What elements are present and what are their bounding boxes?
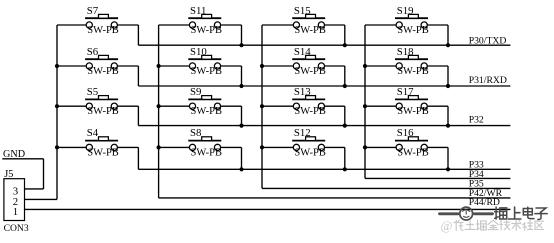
svg-text:SW-PB: SW-PB — [191, 25, 223, 36]
svg-text:S10: S10 — [190, 46, 207, 58]
svg-text:S17: S17 — [397, 86, 414, 98]
svg-text:S12: S12 — [294, 127, 311, 139]
svg-text:SW-PB: SW-PB — [87, 66, 119, 77]
svg-text:P30/TXD: P30/TXD — [469, 36, 507, 47]
svg-text:S4: S4 — [87, 127, 99, 139]
svg-text:S14: S14 — [294, 46, 311, 58]
svg-text:S15: S15 — [294, 5, 311, 17]
svg-text:S6: S6 — [87, 46, 99, 58]
svg-text:SW-PB: SW-PB — [397, 66, 429, 77]
svg-text:SW-PB: SW-PB — [191, 66, 223, 77]
svg-text:S16: S16 — [397, 127, 414, 139]
svg-text:S13: S13 — [294, 86, 311, 98]
svg-text:P32: P32 — [469, 115, 484, 126]
svg-text:SW-PB: SW-PB — [191, 147, 223, 158]
svg-text:P31/RXD: P31/RXD — [469, 75, 507, 86]
svg-text:SW-PB: SW-PB — [87, 25, 119, 36]
svg-text:S5: S5 — [87, 86, 98, 98]
svg-text:SW-PB: SW-PB — [294, 106, 326, 117]
svg-text:P44/RD: P44/RD — [469, 197, 500, 208]
svg-text:SW-PB: SW-PB — [294, 25, 326, 36]
svg-text:S7: S7 — [87, 5, 99, 17]
svg-text:SW-PB: SW-PB — [191, 106, 223, 117]
svg-text:S9: S9 — [190, 86, 201, 98]
svg-text:1: 1 — [13, 206, 18, 218]
svg-text:CON3: CON3 — [4, 223, 29, 234]
svg-text:SW-PB: SW-PB — [87, 147, 119, 158]
svg-text:J5: J5 — [4, 169, 13, 180]
svg-text:SW-PB: SW-PB — [294, 66, 326, 77]
svg-text:S19: S19 — [397, 5, 414, 17]
svg-text:SW-PB: SW-PB — [294, 147, 326, 158]
svg-text:SW-PB: SW-PB — [397, 25, 429, 36]
svg-text:@: @ — [441, 218, 453, 233]
svg-text:SW-PB: SW-PB — [87, 106, 119, 117]
svg-text:S8: S8 — [190, 127, 201, 139]
svg-text:S18: S18 — [397, 46, 414, 58]
svg-text:SW-PB: SW-PB — [397, 106, 429, 117]
svg-text:S11: S11 — [190, 5, 206, 17]
svg-text:SW-PB: SW-PB — [397, 147, 429, 158]
